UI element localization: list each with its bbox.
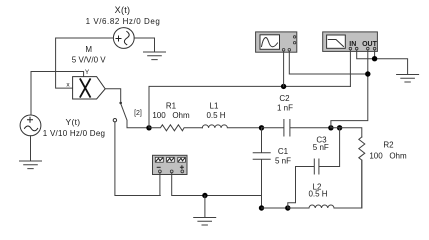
switch J1 xyxy=(119,102,122,105)
wire ground stem G3 xyxy=(204,196,206,218)
ground G4 xyxy=(397,75,419,83)
wire Y(t) bottom to ground xyxy=(30,136,32,161)
svg-text:5 nF: 5 nF xyxy=(313,143,329,152)
svg-text:1 nF: 1 nF xyxy=(277,104,293,113)
resistor R1 xyxy=(149,125,202,131)
svg-text:0.5 H: 0.5 H xyxy=(308,190,327,199)
node scope B / OUT+ junction xyxy=(365,71,370,76)
svg-text:100 Ohm: 100 Ohm xyxy=(369,152,407,161)
node C1 bottom corner xyxy=(259,205,264,210)
wire scope channel B to output node xyxy=(289,51,368,74)
svg-text:R2: R2 xyxy=(383,141,394,150)
wire wattmeter pin 1 xyxy=(159,173,161,196)
bode plotter XBP1 xyxy=(323,32,378,52)
wire Y(t) top to multiplier Y input xyxy=(31,72,84,116)
source Y(t) V2 xyxy=(20,115,41,136)
node OUT- ground junction xyxy=(372,56,377,61)
capacitor C3 xyxy=(288,128,340,208)
wire bode OUT- to ground xyxy=(375,50,408,75)
wire scope tap horizontal xyxy=(149,86,350,127)
capacitor C2 xyxy=(262,120,331,137)
wire bode IN- to ground bus xyxy=(357,50,375,59)
ground G3 xyxy=(194,218,216,226)
wire X(t) right to ground xyxy=(134,38,154,52)
ground G1 xyxy=(144,52,166,60)
svg-text:M: M xyxy=(85,45,92,54)
resistor R2 xyxy=(359,137,365,208)
multiplier M A1 xyxy=(73,77,106,99)
svg-text:X(t): X(t) xyxy=(115,5,131,15)
svg-text:5 nF: 5 nF xyxy=(275,157,291,166)
wattmeter bus segment B xyxy=(172,195,261,197)
svg-text:[2]: [2] xyxy=(134,110,142,117)
node output bus dot A xyxy=(328,125,333,130)
wattmeter XWM1 xyxy=(153,155,188,174)
node L1/C1/C2 junction xyxy=(259,125,264,130)
node scope input tap xyxy=(281,84,286,89)
svg-text:1 V/10 Hz/0 Deg: 1 V/10 Hz/0 Deg xyxy=(43,129,105,138)
node L2 left junction xyxy=(285,205,290,210)
inductor L2 xyxy=(288,160,362,208)
wire bode OUT+ down to output node xyxy=(331,50,368,128)
svg-text:5 V/V/0 V: 5 V/V/0 V xyxy=(72,56,106,65)
wire X(t) left to multiplier x input xyxy=(56,38,114,88)
wire wattmeter pin 2 xyxy=(171,173,173,196)
node output bus dot B xyxy=(337,125,342,130)
ground G2 xyxy=(20,161,42,169)
wire multiplier output to switch xyxy=(105,89,121,101)
node R1 input junction xyxy=(146,125,151,130)
svg-text:0.5 H: 0.5 H xyxy=(206,111,225,120)
svg-text:OUT: OUT xyxy=(362,41,378,48)
wire switch throw 2 down to bottom left bus xyxy=(115,122,160,196)
svg-text:Y(t): Y(t) xyxy=(66,117,81,127)
inductor L1 xyxy=(202,125,261,128)
svg-text:C2: C2 xyxy=(279,94,290,103)
source X(t) V1 xyxy=(113,28,134,49)
wire scope channel A down xyxy=(283,51,285,86)
svg-text:100 Ohm: 100 Ohm xyxy=(152,111,190,120)
svg-text:C1: C1 xyxy=(278,147,289,156)
svg-text:x: x xyxy=(66,82,70,89)
svg-text:R1: R1 xyxy=(166,102,177,111)
wire output bus to R2 xyxy=(331,128,362,137)
oscilloscope XSC1 xyxy=(256,32,297,52)
svg-text:L1: L1 xyxy=(210,102,219,111)
wire bottom bus left segment xyxy=(262,207,288,209)
svg-text:Y: Y xyxy=(85,69,90,76)
svg-text:1 V/6.82 Hz/0 Deg: 1 V/6.82 Hz/0 Deg xyxy=(86,17,161,26)
node ground junction xyxy=(202,193,207,198)
capacitor C1 xyxy=(253,128,270,196)
wire C1 bottom to bottom bus xyxy=(261,196,263,209)
wire bode IN+ down to tap xyxy=(349,50,351,87)
